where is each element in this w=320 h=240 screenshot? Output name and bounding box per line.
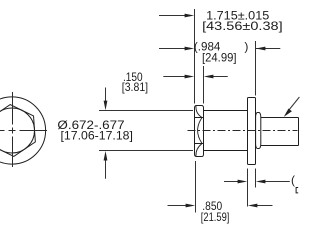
arrowhead .850 right bbox=[248, 204, 258, 208]
arrowhead 1.715 bbox=[185, 14, 195, 18]
dim line .984 right bbox=[256, 48, 280, 50]
dim line .150 left bbox=[163, 76, 185, 78]
dim line flange thickness right bbox=[265, 181, 290, 183]
extension line below flange right face (flange thickness) bbox=[255, 169, 257, 188]
side view hex facet line upper bbox=[195, 117, 204, 119]
svg-text:[17.06-17.18]: [17.06-17.18] bbox=[61, 129, 133, 143]
extension line bottom of cylinder for diameter dim bbox=[99, 150, 193, 152]
side view cylinder top line bbox=[204, 110, 248, 112]
side view hex middle facet arc bbox=[198, 118, 202, 143]
front view outer flange circle bbox=[0, 97, 46, 164]
arrowhead .150 left bbox=[185, 75, 195, 79]
svg-text:): ) bbox=[244, 39, 248, 53]
arrowhead dia bottom bbox=[104, 151, 108, 161]
arrowhead .850 left bbox=[186, 204, 196, 208]
svg-text:[43.56±0.38]: [43.56±0.38] bbox=[202, 19, 283, 33]
dia dim line upper bbox=[105, 88, 107, 102]
extension line below flange left face (.850 / flange thickness) bbox=[247, 169, 249, 207]
side view stud end face bbox=[298, 118, 300, 146]
side view hex head outline bbox=[195, 106, 204, 157]
side view cylinder bottom line bbox=[204, 150, 248, 152]
front view chamfer circle bbox=[0, 108, 35, 153]
arrowhead flange thickness right bbox=[256, 180, 266, 184]
extension line below hex head left face for .850 bbox=[195, 161, 197, 213]
dim line .984 left bbox=[159, 48, 186, 50]
side view hex top facet arc bbox=[196, 106, 202, 117]
arrowhead .984 left bbox=[185, 47, 195, 51]
dim line .850 right bbox=[257, 205, 273, 207]
front view horizontal centerline bbox=[0, 130, 47, 132]
front view hexagon bbox=[0, 103, 36, 158]
svg-text:[3.81]: [3.81] bbox=[122, 80, 148, 94]
dia dim line lower bbox=[105, 160, 107, 179]
arrowhead dia top bbox=[104, 101, 108, 111]
side view hex facet line lower bbox=[195, 143, 204, 145]
leader line to stud bbox=[287, 97, 300, 113]
extension line at hex head left face (shared by dims 1.715, .984, .150) bbox=[194, 9, 196, 104]
dim line .150 right bbox=[213, 76, 228, 78]
svg-text:[24.99]: [24.99] bbox=[202, 51, 237, 65]
dim line flange thickness left bbox=[224, 181, 239, 183]
side view horizontal centerline bbox=[188, 130, 298, 132]
side view flange rectangle bbox=[248, 98, 256, 165]
arrowhead .150 right bbox=[204, 75, 214, 79]
side view stud top line bbox=[261, 117, 299, 119]
dim line .850 left bbox=[168, 205, 187, 207]
extension line at hex head right face for .150 bbox=[203, 66, 205, 104]
arrowhead leader bbox=[284, 109, 292, 117]
arrowhead .984 right bbox=[256, 47, 266, 51]
extension line at flange right face for .984 bbox=[255, 41, 257, 96]
svg-text:(: ( bbox=[291, 173, 295, 187]
svg-text:[21.59]: [21.59] bbox=[201, 210, 230, 224]
side view hex bottom facet arc bbox=[196, 144, 202, 156]
front view vertical centerline bbox=[12, 92, 14, 167]
side view neck ring bbox=[256, 113, 261, 149]
extension line top of cylinder for diameter dim bbox=[99, 110, 193, 112]
dim line 1.715 left bbox=[159, 15, 186, 17]
arrowhead flange thickness left bbox=[238, 180, 248, 184]
dim text flange thickness bracket (clipped) bbox=[296, 188, 298, 193]
side view stud bottom line bbox=[261, 145, 299, 147]
